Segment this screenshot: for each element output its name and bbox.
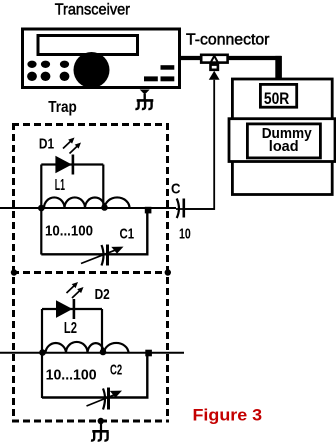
capacitor C1 (variable) xyxy=(81,245,124,266)
wire trap1 bottom loop xyxy=(41,210,147,254)
wire trap2 left vertical xyxy=(41,309,43,398)
node divider left xyxy=(11,269,17,275)
svg-text:T-connector: T-connector xyxy=(186,31,270,48)
svg-text:50R: 50R xyxy=(264,89,289,108)
wire main bottom line xyxy=(0,352,184,354)
ground (trap) xyxy=(91,421,109,441)
transceiver display xyxy=(38,36,138,55)
svg-text:L2: L2 xyxy=(64,320,77,337)
svg-text:D2: D2 xyxy=(95,286,110,303)
node L2 tap xyxy=(100,349,107,356)
wire T-connector to dummy load xyxy=(228,56,281,60)
node trap ground xyxy=(98,418,104,424)
wire trap1 left vertical xyxy=(40,165,42,255)
resistor 50R box xyxy=(260,84,296,107)
svg-text:C: C xyxy=(171,181,181,198)
capacitor C2 (variable) xyxy=(87,388,123,410)
node L2 right xyxy=(145,350,152,357)
ground (transceiver chassis) xyxy=(135,90,153,110)
diode D1 xyxy=(55,155,73,175)
svg-text:Trap: Trap xyxy=(48,99,77,116)
wire main top after capacitor xyxy=(185,208,215,210)
dummy load inner box xyxy=(247,124,320,158)
inductor L2 xyxy=(46,342,129,353)
svg-text:D1: D1 xyxy=(39,135,54,152)
trap enclosure dashed box xyxy=(12,123,169,423)
svg-text:C2: C2 xyxy=(110,362,122,379)
dummy load middle case xyxy=(229,119,335,162)
svg-text:10...100: 10...100 xyxy=(46,366,97,383)
transceiver indicator bars xyxy=(144,65,174,81)
svg-text:Figure 3: Figure 3 xyxy=(193,405,263,424)
dummy load outer case xyxy=(232,79,332,195)
node L1 tap xyxy=(101,204,108,211)
svg-text:L1: L1 xyxy=(55,177,65,194)
svg-text:Transceiver: Transceiver xyxy=(55,2,131,19)
wire main top line xyxy=(0,207,176,209)
wire trap1 tap vertical xyxy=(102,165,104,208)
diode D2 xyxy=(56,299,74,319)
T-connector notch xyxy=(211,56,218,63)
D2 LED arrows xyxy=(67,282,84,298)
node L1 left xyxy=(38,205,45,212)
D1 LED arrows xyxy=(63,138,81,154)
capacitor C xyxy=(177,199,184,219)
wire transceiver to T-connector xyxy=(179,56,201,60)
node L2 left xyxy=(39,349,46,356)
transceiver U1 outer box xyxy=(23,29,180,88)
wire L1 to border xyxy=(130,207,177,209)
svg-text:10: 10 xyxy=(179,225,191,242)
transceiver keypad buttons xyxy=(27,61,69,81)
wire T-connector tap down to main line xyxy=(176,80,214,209)
T-connector arrow xyxy=(209,71,220,80)
trap divider dashed line xyxy=(12,271,169,274)
node L1 right xyxy=(145,207,152,214)
inductor L1 xyxy=(44,197,130,208)
svg-text:C1: C1 xyxy=(120,226,135,243)
svg-text:load: load xyxy=(269,138,299,155)
transceiver tuning knob xyxy=(74,52,110,88)
T-connector J1 body xyxy=(201,55,227,63)
wire trap2 bottom loop xyxy=(42,355,147,398)
svg-text:10...100: 10...100 xyxy=(45,223,93,240)
wire trap1 top branch xyxy=(41,163,103,165)
wire trap2 tap vertical xyxy=(101,309,103,352)
T-connector lower square xyxy=(211,65,218,70)
wire trap2 top branch xyxy=(42,308,102,310)
node divider right xyxy=(165,269,171,275)
